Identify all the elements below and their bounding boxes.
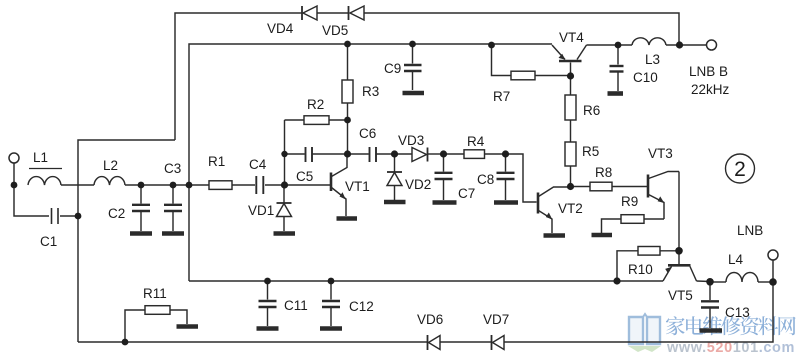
svg-text:C10: C10	[633, 70, 658, 85]
svg-text:R8: R8	[595, 165, 612, 180]
resistor R2	[285, 116, 348, 125]
svg-text:VT2: VT2	[558, 201, 583, 216]
svg-text:LNB: LNB	[737, 223, 763, 238]
diode VD2	[384, 154, 406, 202]
diode VD4	[302, 6, 317, 20]
resistor R11	[125, 306, 198, 342]
capacitor C2	[130, 185, 152, 234]
wire bottom rail segment 3	[504, 260, 773, 342]
transistor VT4	[552, 45, 587, 76]
wire C8 to VT2 base	[506, 154, 537, 202]
svg-text:VD1: VD1	[248, 203, 274, 218]
resistor R10	[617, 247, 679, 282]
wire C1 branch	[14, 185, 49, 216]
inductor L1	[28, 177, 61, 185]
resistor R4	[443, 150, 505, 159]
antenna terminal	[9, 153, 19, 163]
diode VD7	[492, 335, 505, 350]
diode VD3	[395, 148, 444, 162]
watermark book icon	[628, 314, 661, 352]
resistor R9	[592, 215, 665, 235]
capacitor C6	[347, 147, 394, 162]
diode VD5	[349, 6, 365, 20]
resistor R8	[570, 182, 647, 191]
wire C1 to left vertical	[60, 215, 78, 217]
svg-text:L4: L4	[728, 252, 744, 267]
transistor VT2	[538, 187, 570, 236]
svg-text:VT3: VT3	[648, 146, 673, 161]
svg-text:C7: C7	[458, 186, 475, 201]
svg-text:C9: C9	[384, 61, 401, 76]
wire R1-C4	[232, 184, 255, 186]
capacitor C1	[52, 208, 59, 224]
svg-text:VD4: VD4	[267, 21, 294, 36]
svg-text:LNB B: LNB B	[689, 64, 728, 79]
svg-text:C11: C11	[284, 298, 308, 313]
transistor VT5	[663, 251, 710, 282]
diode VD1	[274, 185, 296, 234]
resistor R7	[492, 45, 571, 80]
svg-text:22kHz: 22kHz	[691, 82, 730, 97]
wire second rail	[189, 44, 552, 281]
transistor VT1	[331, 154, 357, 219]
svg-text:C5: C5	[296, 169, 313, 184]
svg-text:L2: L2	[103, 158, 118, 173]
capacitor C13	[700, 282, 723, 331]
circled 2	[726, 154, 755, 183]
svg-text:R4: R4	[467, 134, 485, 149]
L1 underline	[29, 168, 62, 170]
svg-text:VD5: VD5	[322, 23, 348, 38]
svg-text:C1: C1	[40, 234, 57, 249]
svg-text:C4: C4	[249, 157, 267, 172]
capacitor C8	[494, 154, 518, 203]
inductor L4	[710, 273, 773, 283]
capacitor C3	[162, 185, 184, 234]
svg-text:VD3: VD3	[398, 133, 424, 148]
svg-text:R6: R6	[583, 103, 600, 118]
svg-text:C12: C12	[349, 299, 374, 314]
resistor R6	[565, 76, 576, 142]
wire main line L2-R1	[125, 184, 209, 186]
LNB terminal	[768, 250, 778, 260]
capacitor C9	[403, 44, 425, 93]
svg-text:VD7: VD7	[483, 312, 509, 327]
wire bottom rail segment 1	[78, 341, 427, 343]
svg-text:C2: C2	[108, 206, 125, 221]
inductor L3	[587, 38, 707, 45]
transistor VT3	[648, 172, 679, 220]
svg-text:L1: L1	[33, 150, 48, 165]
svg-text:2: 2	[734, 158, 746, 181]
wire VT3 collector down	[678, 172, 680, 251]
diode VD6	[428, 335, 441, 350]
capacitor C10	[608, 45, 624, 94]
svg-text:R5: R5	[582, 144, 599, 159]
wire main line L1-L2	[61, 184, 94, 186]
svg-text:VT4: VT4	[559, 30, 584, 45]
LNB B terminal	[707, 40, 717, 50]
wire left step down	[78, 140, 175, 342]
inductor L2	[94, 177, 125, 185]
wire top rail left segment	[175, 13, 302, 140]
svg-text:R11: R11	[143, 286, 167, 301]
svg-text:C3: C3	[164, 161, 181, 176]
capacitor C12	[320, 281, 342, 329]
node main/R2 vertical	[284, 120, 286, 185]
watermark text	[666, 316, 796, 335]
wire main line input	[13, 163, 15, 185]
svg-text:C8: C8	[477, 172, 494, 187]
resistor R3	[342, 44, 353, 154]
svg-text:VD2: VD2	[405, 177, 431, 192]
capacitor C11	[257, 281, 279, 329]
capacitor C7	[433, 154, 457, 203]
svg-text:C13: C13	[725, 305, 750, 320]
wire top rail right segment	[364, 13, 679, 45]
svg-text:L3: L3	[645, 52, 660, 67]
resistor R1	[209, 181, 232, 190]
svg-text:R10: R10	[628, 262, 653, 277]
svg-text:R3: R3	[362, 84, 379, 99]
svg-text:R1: R1	[208, 154, 225, 169]
svg-text:R7: R7	[493, 89, 510, 104]
capacitor C5	[285, 147, 348, 162]
svg-text:R9: R9	[621, 194, 638, 209]
svg-text:VD6: VD6	[417, 312, 443, 327]
capacitor C4	[256, 176, 263, 194]
wire bottom rail segment 2	[440, 341, 491, 343]
wire C4-VT1 base	[265, 184, 330, 186]
wire between VD4 and VD5	[317, 12, 348, 14]
svg-text:VT1: VT1	[345, 179, 370, 194]
svg-text:C6: C6	[359, 126, 376, 141]
resistor R5	[565, 142, 576, 186]
svg-text:R2: R2	[307, 97, 324, 112]
svg-text:VT5: VT5	[668, 288, 693, 303]
wire mid rail	[189, 280, 663, 282]
